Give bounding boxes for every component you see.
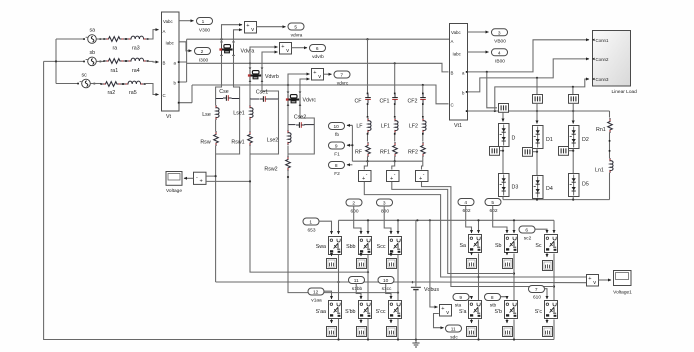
svg-text:+: + <box>200 179 203 185</box>
wire phase B line <box>187 63 449 72</box>
wire CVS1 feed <box>364 161 367 169</box>
node rsw2 bottom <box>287 176 289 178</box>
svg-text:10: 10 <box>383 278 389 284</box>
capacitor Cse <box>216 89 240 101</box>
wire tag9 to S'a gate <box>469 297 472 299</box>
wire Vabc out <box>179 20 194 22</box>
svg-text:Lse1: Lse1 <box>233 111 245 117</box>
resistor ra <box>103 37 126 42</box>
wire Iabc out <box>179 42 192 51</box>
wire to tag 7 <box>324 73 332 75</box>
svg-text:Vdvrb: Vdvrb <box>265 74 279 80</box>
wire bundle L1 CVS1 to leg a <box>364 181 586 277</box>
wire loop a right side <box>216 99 240 155</box>
inductor Ln1 <box>595 133 613 200</box>
capacitor CF2 <box>407 85 425 105</box>
svg-text:ra1: ra1 <box>111 68 119 74</box>
goto tag 4 602 <box>458 199 474 215</box>
transformer Vdvra <box>219 42 254 57</box>
scope scc <box>387 254 397 269</box>
wire tag3 to Scc gate <box>384 206 391 234</box>
wire mid leg a <box>478 254 480 301</box>
inductor LF2 <box>409 103 426 133</box>
wire vdc out to tag sdc <box>434 314 444 328</box>
wire phase c to Conn3 <box>495 79 589 111</box>
wire bundle L3 CVS3 to leg c <box>422 181 555 287</box>
goto tag 9 F1 <box>329 142 345 158</box>
ground <box>412 340 419 347</box>
scope sbb <box>357 254 367 269</box>
wire rail leg Sc <box>553 220 555 233</box>
wire mid leg aa <box>338 254 340 301</box>
voltmeter +v b <box>280 43 292 55</box>
goto tag 11 sdc <box>446 325 462 341</box>
scope sc2 <box>543 253 553 271</box>
SECTION:VT1LOAD <box>450 24 638 130</box>
svg-text:4: 4 <box>464 200 467 206</box>
goto tag 3 800 <box>377 199 393 215</box>
svg-text:B: B <box>163 61 166 66</box>
svg-text:D4: D4 <box>546 186 553 192</box>
scope s'bb <box>357 319 367 337</box>
svg-text:stb: stb <box>490 303 497 309</box>
scope Voltage <box>166 172 182 195</box>
svg-text:IB00: IB00 <box>495 58 505 64</box>
wire Vabc1 out <box>468 31 489 33</box>
scope sa2 <box>467 253 477 269</box>
svg-text:Ln1: Ln1 <box>595 168 604 174</box>
capacitor Cse2 <box>288 115 314 128</box>
wire to tag 5 <box>256 26 286 28</box>
svg-text:Vabc: Vabc <box>163 19 173 24</box>
wire ic to D2 <box>572 104 574 124</box>
svg-text:5: 5 <box>294 25 297 31</box>
inductor Lse2 <box>267 125 291 145</box>
svg-text:Rsw2: Rsw2 <box>264 167 277 173</box>
gate block gc <box>559 147 575 156</box>
svg-text:vdvra: vdvra <box>291 33 303 39</box>
wire midpoint b line <box>250 154 368 272</box>
SECTION:SOURCES <box>77 28 158 97</box>
svg-text:Rsw1: Rsw1 <box>231 140 244 146</box>
svg-text:Vt: Vt <box>166 114 172 120</box>
goto tag 8 stb <box>485 294 501 309</box>
node B tap xfmr <box>249 62 251 64</box>
voltmeter +v scope feed <box>194 172 207 184</box>
switch S'cc <box>376 301 402 319</box>
wire neutral left vertical and bottom bus <box>44 61 554 339</box>
wire rail leg Scc <box>397 220 399 234</box>
goto tag 10 fb <box>329 123 345 139</box>
svg-text:Vt1: Vt1 <box>454 123 462 129</box>
SECTION:FILTER <box>329 39 429 182</box>
svg-text:fb: fb <box>335 132 339 138</box>
svg-text:D: D <box>512 136 516 142</box>
wire xfmr-b legs down <box>250 81 279 95</box>
svg-text:2: 2 <box>352 201 355 207</box>
wire midpoint a long line <box>216 154 586 283</box>
wire tap a to rectifier <box>487 72 497 108</box>
scope sb2 <box>503 253 513 269</box>
svg-text:Rn1: Rn1 <box>596 127 606 133</box>
inductor LF1 <box>381 103 398 133</box>
goto tag 5 vdvra <box>288 23 304 39</box>
svg-text:602: 602 <box>462 208 470 214</box>
svg-text:Vdvrc: Vdvrc <box>303 98 317 104</box>
wire bottom leg b <box>513 320 515 340</box>
wire loop c right side <box>288 125 314 154</box>
voltmeter vdc <box>440 305 452 317</box>
svg-text:5: 5 <box>491 200 494 206</box>
svg-text:D1: D1 <box>546 137 553 143</box>
node mid-b2 tap <box>513 272 515 274</box>
wire phase A line <box>187 38 449 40</box>
svg-text:A: A <box>451 39 454 44</box>
node mid-a2 tap <box>477 276 479 278</box>
resistor ra1 <box>103 59 126 64</box>
scope s'aa <box>327 319 337 337</box>
wire tag4 to Sa gate <box>466 206 472 234</box>
svg-text:vdvrc: vdvrc <box>337 81 349 87</box>
svg-text:CF1: CF1 <box>379 99 389 105</box>
resistor ra2 <box>100 82 123 87</box>
scope s'a <box>467 319 477 337</box>
svg-text:RF2: RF2 <box>408 150 418 156</box>
svg-text:Voltage: Voltage <box>166 188 182 194</box>
svg-text:Scc: Scc <box>377 244 386 250</box>
svg-text:Vabc: Vabc <box>451 30 461 35</box>
wire +v inputs taps <box>206 176 250 181</box>
goto tag 8 F2 <box>329 162 345 178</box>
svg-text:3: 3 <box>383 201 386 207</box>
inductor ra4 <box>125 58 148 62</box>
svg-text:8: 8 <box>491 295 494 301</box>
svg-text:F1: F1 <box>334 152 340 158</box>
wire CVS2 feed <box>392 161 395 169</box>
switch Swa <box>316 237 342 255</box>
diode D1 <box>533 126 553 149</box>
svg-text:Iabc: Iabc <box>166 41 175 46</box>
voltmeter +v c <box>312 69 324 81</box>
svg-text:sta: sta <box>455 303 462 309</box>
wire tap c to rectifier <box>572 87 574 95</box>
svg-text:LF2: LF2 <box>409 124 418 130</box>
svg-text:S'c: S'c <box>535 309 543 315</box>
AC source sc <box>77 73 101 88</box>
wire tag5 to Sb gate <box>493 206 507 234</box>
wire rectifier bottom bus <box>503 197 610 200</box>
svg-text:653: 653 <box>307 228 315 234</box>
svg-text:S'aa: S'aa <box>316 309 326 315</box>
wire xfmr-b legs up to +v <box>250 47 278 70</box>
svg-text:6: 6 <box>525 228 528 234</box>
svg-text:Cse1: Cse1 <box>256 90 268 96</box>
switch Sbb <box>346 237 371 255</box>
goto tag 6 vdvrb <box>310 45 326 61</box>
svg-text:9: 9 <box>335 144 338 150</box>
svg-text:S'a: S'a <box>459 309 467 315</box>
svg-text:7: 7 <box>535 287 538 293</box>
svg-text:11: 11 <box>451 327 456 333</box>
inductor ra3 <box>125 36 148 40</box>
switch Sc <box>535 235 557 253</box>
node sb tie <box>55 60 57 62</box>
AC source sb <box>83 50 104 66</box>
svg-text:CF: CF <box>354 99 362 105</box>
svg-text:Iabc: Iabc <box>453 52 462 57</box>
wire rail leg Sa <box>478 220 480 233</box>
svg-text:11: 11 <box>354 278 359 284</box>
svg-text:600: 600 <box>350 209 358 215</box>
diode D <box>499 124 516 147</box>
goto tag 1 V300 <box>197 18 213 34</box>
svg-text:ra3: ra3 <box>132 46 140 52</box>
svg-text:602: 602 <box>489 208 497 214</box>
wire tag7 to S'c gate <box>545 289 548 299</box>
controlled source CVS3 <box>416 171 429 183</box>
svg-text:D2: D2 <box>582 137 589 143</box>
wire load phase a <box>468 40 590 72</box>
svg-text:4: 4 <box>498 50 501 56</box>
svg-text:sc2: sc2 <box>524 236 532 242</box>
wire bottom leg cc <box>397 319 399 340</box>
resistor Rn1 <box>596 111 612 133</box>
gate block gb <box>523 148 539 157</box>
wire tag2 to Sbb gate <box>354 206 361 234</box>
goto tag 2 600 <box>346 199 362 215</box>
wire bottom leg bb <box>367 319 369 340</box>
svg-text:C: C <box>163 93 166 98</box>
scope s'c <box>543 319 553 337</box>
scope s'b <box>503 319 513 337</box>
svg-text:vdvrb: vdvrb <box>312 54 324 60</box>
goto tag 10 s1cc <box>378 277 394 293</box>
svg-text:sc: sc <box>82 73 88 79</box>
svg-text:Vdvra: Vdvra <box>241 49 255 55</box>
svg-text:Linear Load: Linear Load <box>612 89 638 95</box>
wire rail tap to vmeter <box>430 220 438 307</box>
scope Voltage1 <box>613 271 632 296</box>
diode D3 <box>499 174 519 197</box>
svg-text:Lse2: Lse2 <box>267 138 279 144</box>
current meas ic <box>569 95 579 104</box>
svg-text:Cse2: Cse2 <box>294 115 306 121</box>
wire mid leg bb <box>367 254 369 301</box>
DC source Vdbus <box>411 220 439 339</box>
scope swa <box>327 254 337 269</box>
svg-text:7: 7 <box>340 73 343 79</box>
diode D5 <box>569 174 589 197</box>
svg-text:VB00: VB00 <box>494 38 506 44</box>
wire sb stub <box>44 60 84 62</box>
SECTION:WIRES <box>44 38 586 341</box>
diode D4 <box>533 176 553 199</box>
wire filter common node line <box>352 160 422 162</box>
SECTION:VT <box>162 12 213 120</box>
inductor ra5 <box>122 81 145 85</box>
wire xfmr-a legs up to +v <box>222 25 243 45</box>
svg-text:9: 9 <box>459 295 462 301</box>
svg-text:Lse: Lse <box>202 112 211 118</box>
svg-text:ra: ra <box>113 46 118 52</box>
svg-text:8: 8 <box>335 163 338 169</box>
node bus dots <box>337 338 339 340</box>
wire Vt c jog <box>179 85 192 103</box>
wire tag12 to S'aa gate <box>324 291 332 299</box>
transformer Vdvrc <box>286 92 316 107</box>
wire D1 to D4 <box>536 149 538 176</box>
svg-text:ra2: ra2 <box>108 90 116 96</box>
svg-text:LF1: LF1 <box>381 124 390 130</box>
svg-text:Sc: Sc <box>535 243 542 249</box>
goto tag 9 sta <box>453 294 469 309</box>
goto tag 7 610 <box>529 286 545 301</box>
goto tag 4 IB00 <box>492 49 508 65</box>
wire ia to D <box>502 113 504 122</box>
svg-text:s1bb: s1bb <box>352 286 363 292</box>
svg-text:C: C <box>451 103 454 108</box>
wire to tag 6 <box>292 47 308 49</box>
node mid-c leg tap <box>397 292 399 294</box>
resistor Rsw1 <box>231 120 252 154</box>
wire mid leg cc <box>397 254 399 301</box>
svg-text:s1cc: s1cc <box>382 286 392 292</box>
wire sb to Vt B <box>148 60 159 63</box>
wire xfmr-c legs up to +v <box>288 74 310 94</box>
wire sa to Vt A <box>148 30 159 39</box>
capacitor CF1 <box>379 63 397 104</box>
svg-text:Vdbus: Vdbus <box>424 287 439 293</box>
svg-text:sb: sb <box>90 50 96 56</box>
svg-text:3: 3 <box>498 30 501 36</box>
svg-text:S'b: S'b <box>495 309 503 315</box>
capacitor CF <box>354 39 370 104</box>
svg-text:ra4: ra4 <box>132 68 140 74</box>
controlled source CVS1 <box>359 171 372 183</box>
wire Vt a jog <box>179 39 187 82</box>
voltmeter vbus out <box>587 275 599 287</box>
node C tap xfmr <box>287 84 289 86</box>
wire bottom leg aa <box>338 319 340 340</box>
svg-text:10: 10 <box>334 124 340 130</box>
switch S'b <box>495 301 518 319</box>
node mid-c2 tap <box>553 285 555 287</box>
wire +v to Voltage scope <box>184 177 194 179</box>
svg-text:RF: RF <box>355 150 363 156</box>
resistor RF <box>355 133 370 162</box>
wire tap b to rectifier <box>536 78 538 95</box>
three-phase VI measurement Vt1 <box>450 24 468 130</box>
SECTION:MISC <box>411 220 632 347</box>
svg-text:Cse: Cse <box>219 89 228 95</box>
SECTION:INV <box>303 199 558 337</box>
wire load phase b <box>468 59 590 92</box>
subsystem Linear Load <box>592 31 637 96</box>
svg-text:D3: D3 <box>512 185 519 191</box>
wire midpoint c line <box>288 171 398 293</box>
svg-text:610: 610 <box>533 295 541 301</box>
inductor Lse1 <box>233 99 253 120</box>
node A tap CF <box>366 38 368 40</box>
diode D2 <box>569 126 589 149</box>
capacitor Cse1 <box>250 90 279 102</box>
SECTION:RECT <box>490 95 614 201</box>
wire sc stub <box>56 83 79 85</box>
svg-text:sa: sa <box>90 28 96 34</box>
wire rail leg Swa <box>338 220 340 234</box>
svg-text:I300: I300 <box>199 58 209 64</box>
resistor RF2 <box>408 133 425 162</box>
resistor Rsw <box>200 120 218 154</box>
svg-text:Swa: Swa <box>316 244 326 250</box>
wire xfmr-a legs down <box>216 55 240 95</box>
svg-text:Voltage1: Voltage1 <box>613 290 632 296</box>
wire mid leg b <box>513 254 515 301</box>
controlled source CVS2 <box>387 171 400 183</box>
switch S'aa <box>316 301 342 319</box>
voltmeter +v a <box>245 22 257 34</box>
wire sc to Vt C <box>145 84 159 95</box>
svg-text:CF2: CF2 <box>407 99 417 105</box>
goto tag 3 VB00 <box>492 29 508 45</box>
switch Sb <box>495 235 517 253</box>
wire tag1 to Swa gate <box>319 221 332 234</box>
switch S'bb <box>345 301 371 319</box>
wire tag6 to Sc gate <box>535 229 547 233</box>
svg-text:Conn1: Conn1 <box>596 38 609 43</box>
wire rail leg Sb <box>513 220 515 233</box>
wire F-tag riser <box>347 125 352 161</box>
resistor Rsw2 <box>264 146 290 173</box>
svg-text:F2: F2 <box>334 171 340 177</box>
svg-text:-: - <box>196 174 198 180</box>
AC source sa <box>83 28 104 44</box>
svg-text:sdc: sdc <box>450 335 458 341</box>
goto tag 12 v1aa <box>308 288 324 304</box>
wire bottom leg a <box>478 320 480 340</box>
svg-text:S'bb: S'bb <box>345 309 355 315</box>
resistor RF1 <box>380 133 397 162</box>
svg-text:1: 1 <box>309 220 312 226</box>
scope s'cc <box>387 319 397 337</box>
current meas ib <box>533 95 543 104</box>
inductor Lse <box>202 99 219 121</box>
wire DC rail <box>339 219 555 221</box>
goto tag 11 s1bb <box>349 277 365 293</box>
wire tag11 to S'bb gate <box>356 284 361 300</box>
current meas ia <box>499 104 509 113</box>
wire CVS3 feed <box>422 161 423 169</box>
svg-text:6: 6 <box>316 46 319 52</box>
svg-text:Sb: Sb <box>495 243 502 249</box>
inductor LF <box>356 103 371 133</box>
svg-text:2: 2 <box>201 49 204 55</box>
svg-text:800: 800 <box>381 209 389 215</box>
svg-text:12: 12 <box>313 290 319 296</box>
wire D2 to D5 <box>572 149 574 174</box>
switch Scc <box>377 237 402 255</box>
SECTION:DVR <box>166 22 350 195</box>
wire rail leg Sbb <box>367 220 369 234</box>
wire Iabc1 out <box>468 51 489 53</box>
wire mid leg c <box>553 254 555 301</box>
wire bottom leg c <box>553 320 555 340</box>
wire xfmr-c legs down <box>288 105 314 125</box>
wire bundle L2 CVS2 to leg b <box>392 181 514 274</box>
wire load phase c <box>468 110 610 112</box>
svg-text:Conn3: Conn3 <box>596 77 609 82</box>
svg-text:v1aa: v1aa <box>311 298 322 304</box>
